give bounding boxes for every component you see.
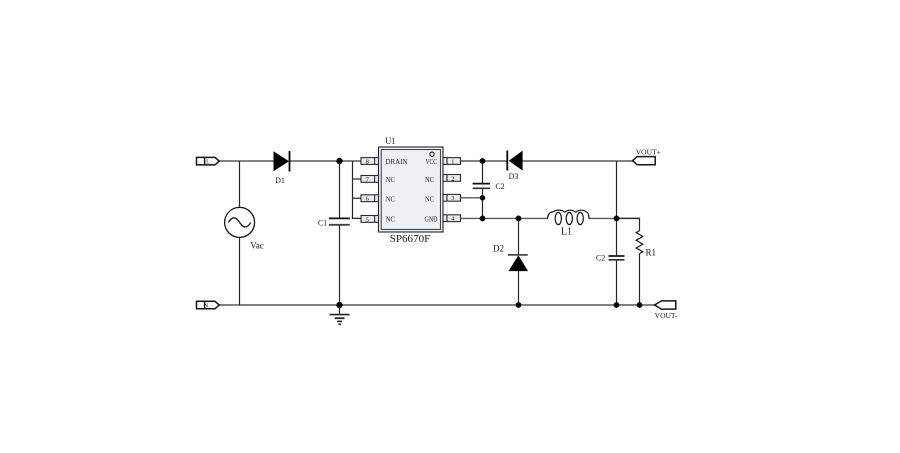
- svg-text:C2: C2: [596, 253, 605, 262]
- svg-text:SP6670F: SP6670F: [390, 234, 431, 245]
- svg-text:D2: D2: [493, 244, 504, 254]
- svg-text:5: 5: [366, 216, 369, 223]
- svg-text:VCC: VCC: [426, 157, 438, 166]
- svg-text:C1: C1: [318, 218, 327, 227]
- svg-text:N: N: [204, 304, 209, 310]
- svg-text:8: 8: [366, 158, 369, 165]
- svg-text:D3: D3: [509, 172, 519, 181]
- svg-text:NC: NC: [386, 175, 395, 184]
- svg-text:NC: NC: [386, 214, 395, 223]
- svg-text:D1: D1: [275, 176, 285, 185]
- svg-text:R1: R1: [646, 247, 657, 257]
- svg-text:U1: U1: [385, 136, 395, 146]
- svg-text:1: 1: [451, 158, 454, 165]
- svg-text:NC: NC: [386, 194, 395, 203]
- svg-text:DRAIN: DRAIN: [386, 157, 409, 166]
- svg-text:L1: L1: [561, 227, 572, 238]
- svg-text:VOUT+: VOUT+: [636, 147, 661, 156]
- svg-text:VOUT-: VOUT-: [655, 311, 678, 320]
- svg-text:3: 3: [451, 195, 454, 202]
- svg-text:L: L: [206, 160, 210, 166]
- svg-text:C2: C2: [495, 182, 504, 191]
- svg-text:GND: GND: [425, 214, 438, 223]
- svg-text:Vac: Vac: [250, 241, 264, 251]
- svg-text:NC: NC: [425, 175, 434, 184]
- svg-text:2: 2: [451, 175, 454, 182]
- svg-text:NC: NC: [425, 194, 434, 203]
